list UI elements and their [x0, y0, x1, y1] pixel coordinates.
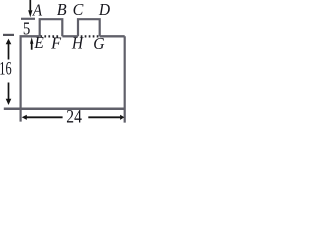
- wire: hidden dotted edge EF: [40, 35, 58, 37]
- svg-text:C: C: [73, 0, 84, 19]
- wire: extension line left of square tab 1 (top level, above label 5): [21, 18, 35, 20]
- dimension 24: right shaft and right arrowhead: [88, 116, 120, 118]
- wire: shoulder right segment (rectangle top edge right of tab 2): [100, 35, 125, 37]
- svg-text:5: 5: [23, 19, 30, 39]
- rectangle body: left edge with extension below: [20, 36, 22, 121]
- svg-text:H: H: [71, 33, 85, 52]
- svg-text:A: A: [32, 1, 43, 20]
- svg-text:E: E: [33, 33, 44, 52]
- wire: shoulder left segment (rectangle top edge left of tab 1): [20, 35, 40, 37]
- svg-text:B: B: [57, 0, 67, 19]
- rectangle body: right edge with extension below: [124, 36, 126, 122]
- dimension 24: left arrowhead and left shaft: [27, 116, 63, 118]
- svg-text:16: 16: [0, 59, 12, 79]
- dimension 16: top tick extension line: [3, 34, 14, 36]
- dimension 16: upper shaft and up arrowhead: [8, 44, 10, 60]
- square tab CDGH (sides CH, CD, DG): [78, 19, 100, 36]
- dimension 5: down arrow above extension line: [29, 0, 31, 10]
- svg-text:D: D: [98, 0, 111, 19]
- svg-text:F: F: [50, 33, 62, 52]
- dimension 5: up arrow pointing to shoulder near E: [31, 44, 33, 50]
- wire: hidden dotted edge HG: [81, 35, 99, 37]
- wire: shoulder middle segment between tabs: [62, 35, 78, 37]
- svg-text:24: 24: [66, 108, 82, 124]
- square tab ABFE (sides AE, AB, BF): [40, 19, 63, 36]
- rectangle body: bottom edge with left extension: [4, 107, 125, 110]
- svg-text:G: G: [93, 34, 104, 53]
- dimension 16: lower shaft and down arrowhead: [8, 83, 10, 100]
